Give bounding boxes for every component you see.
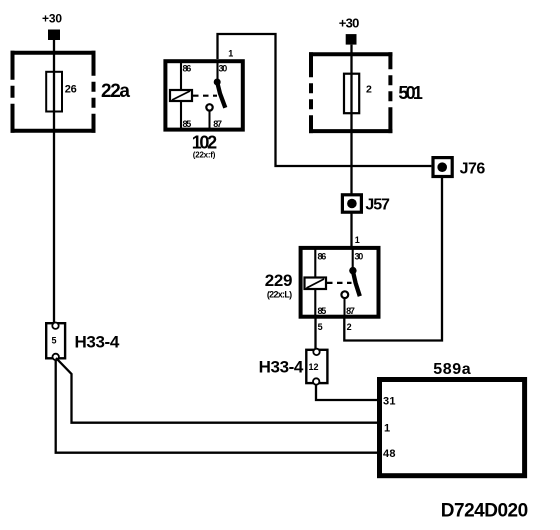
svg-text:J57: J57 <box>365 197 390 214</box>
junction J76 <box>433 158 452 177</box>
fuse 2 <box>344 74 372 114</box>
relay 229 coil <box>305 248 327 316</box>
svg-text:5: 5 <box>52 336 57 346</box>
wire from relay 102 pin 1 to junction J76 <box>218 34 432 166</box>
svg-text:86: 86 <box>318 252 327 262</box>
wire from relay 229 pin 5 to connector H33-4 pin 12 <box>314 316 316 350</box>
svg-text:85: 85 <box>183 119 192 129</box>
node +30 (left) <box>42 12 62 41</box>
wire from connector H33-4 pin 5 to unit 589a pin 48 <box>56 360 378 453</box>
fusebox 501 (dashed box) <box>309 52 392 133</box>
svg-text:87: 87 <box>346 306 355 316</box>
fuse 26 <box>46 72 77 112</box>
relay 102 dashed link <box>193 95 217 97</box>
svg-text:(22x:L): (22x:L) <box>267 290 292 300</box>
junction J57 <box>342 195 361 212</box>
wire from junction J57 to relay 229 pin 1 <box>350 212 352 247</box>
relay 229 switch contact 30 <box>349 248 360 296</box>
svg-text:(22x:f): (22x:f) <box>193 151 216 160</box>
relay 229 box <box>301 248 379 317</box>
relay 229 contact 87 <box>341 291 348 316</box>
svg-text:102: 102 <box>192 133 217 153</box>
svg-text:J76: J76 <box>460 160 486 177</box>
relay 102 box <box>165 61 242 129</box>
svg-text:87: 87 <box>213 119 222 129</box>
svg-text:+30: +30 <box>42 12 62 26</box>
svg-text:H33-4: H33-4 <box>259 358 304 377</box>
svg-text:26: 26 <box>65 84 77 96</box>
connector H33-4 pin 5 <box>46 323 65 361</box>
svg-text:48: 48 <box>383 448 396 460</box>
svg-text:1: 1 <box>384 423 390 435</box>
svg-text:22a: 22a <box>101 81 130 102</box>
wire from junction J76 down and left to relay 229 pin 2 <box>344 178 442 341</box>
svg-text:30: 30 <box>219 64 228 74</box>
svg-text:86: 86 <box>183 64 192 74</box>
svg-text:229: 229 <box>265 271 293 290</box>
svg-text:1: 1 <box>355 235 360 245</box>
svg-text:12: 12 <box>309 362 319 372</box>
svg-text:D724D020: D724D020 <box>441 501 528 522</box>
relay 102 switch contact 30 <box>214 61 226 108</box>
svg-text:31: 31 <box>383 396 396 408</box>
wire from left +30 terminal down to connector H33-4 pin 5 <box>53 40 55 323</box>
wire from connector H33-4 pin 5 to unit 589a pin 1 <box>56 358 378 423</box>
svg-text:5: 5 <box>318 322 323 332</box>
connector H33-4 pin 12 <box>306 349 327 385</box>
svg-text:85: 85 <box>318 306 327 316</box>
svg-text:501: 501 <box>398 83 423 103</box>
svg-text:2: 2 <box>347 322 352 332</box>
wire from right +30 terminal down to junction J57 <box>350 45 352 194</box>
fusebox 22a (dashed box) <box>11 51 96 133</box>
relay 102 coil <box>170 61 192 129</box>
svg-text:30: 30 <box>355 252 364 262</box>
svg-text:H33-4: H33-4 <box>75 333 120 352</box>
svg-text:+30: +30 <box>339 15 360 30</box>
relay 102 contact 87 <box>206 104 212 129</box>
svg-text:589a: 589a <box>433 361 471 378</box>
node +30 (right) <box>339 15 360 44</box>
svg-text:1: 1 <box>228 49 233 59</box>
unit 589a box <box>380 380 525 476</box>
relay 229 dashed link <box>327 282 352 284</box>
svg-text:2: 2 <box>366 84 372 96</box>
wire from connector H33-4 pin 12 to unit 589a pin 31 <box>316 385 378 401</box>
